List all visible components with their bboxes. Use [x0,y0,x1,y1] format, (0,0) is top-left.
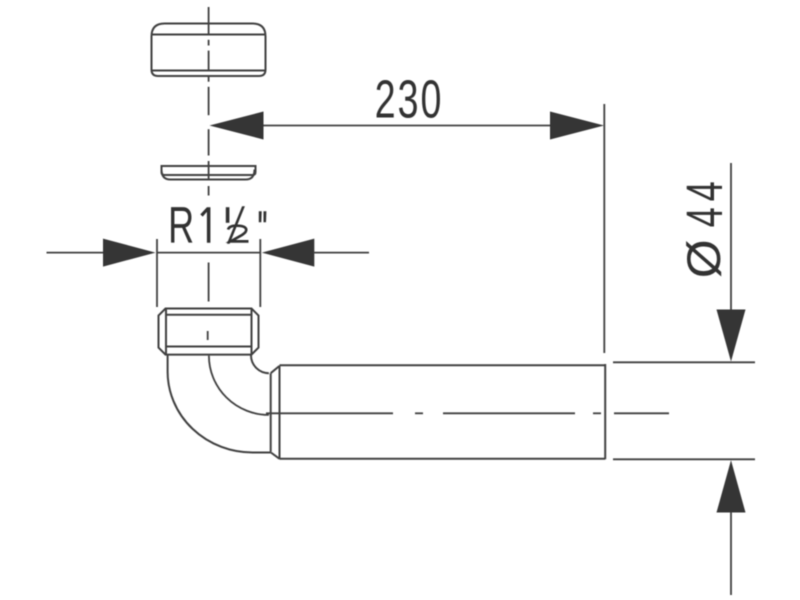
dimension R1 1/2": left line [47,252,105,254]
dimension R1 1/2": fraction denominator 2 [228,226,248,242]
dimension diameter 44: diameter symbol (rotated) [686,241,721,276]
dimension 230: line left segment with arrow tail [263,125,551,127]
dimension diameter 44: lower arrow (points up) [717,460,746,512]
dimension diameter 44: upper arrow (points down) [717,310,746,362]
cap shoulder line lower [152,70,266,72]
dimension R1 1/2": right arrow (points left) [262,239,315,267]
threaded nut of elbow: outer octagon [159,309,259,355]
dimension 230: text [377,80,394,117]
pipe end line [604,364,606,459]
elbow outer contour (left + bottom) [168,355,271,453]
dimension R1 1/2": digit 1 (custom narrow glyph) [200,207,210,243]
dimension diameter 44: digit 4 lower (rotated) [687,208,722,226]
threaded nut: inner top horizontal [166,314,252,316]
washer bevel [162,170,255,180]
horizontal centerline (dash-dot) [266,412,669,414]
dimension diameter 44: pipe top extension line [613,361,755,363]
pipe start line [279,366,281,459]
elbow inner fillet [251,355,269,374]
pipe bottom edge [280,458,606,460]
elbow outlet end line [270,373,272,452]
dimension 230: right arrow (points right, tip on extension line) [550,112,604,140]
slip nut cap (top part) [152,24,266,77]
vertical centerline (dash-dot) [207,7,210,340]
threaded nut: inner right vertical [251,309,253,355]
dimension diameter 44: lower vertical line [730,512,732,595]
dimension 230: left arrow (points left, tip on centerline) [210,112,264,140]
washer (gasket) [162,166,256,175]
threaded nut: inner left vertical [165,309,167,355]
dimension 230: right extension line [603,104,605,353]
dimension diameter 44: digit 4 upper (rotated) [687,182,722,200]
dimension R1 1/2": left extension line [156,239,158,307]
taper top line [271,366,280,373]
dimension R1 1/2": text letter R [171,207,192,242]
cap shoulder line upper [152,34,266,36]
elbow bend centerline arc (solid) [209,356,269,415]
dimension R1 1/2": left arrow (points right) [103,239,156,267]
dimension diameter 44: pipe bottom extension line [613,458,755,460]
dimension R1 1/2": inch marks [259,211,267,222]
dimension R1 1/2": fraction slash [227,206,245,244]
taper bottom line [271,453,280,459]
dimension R1 1/2": right extension line [259,239,261,307]
dimension R1 1/2": middle line between extension lines [157,252,260,254]
dimension diameter 44: upper vertical line [730,163,732,310]
dimension R1 1/2": fraction 1/2 numerator stem [226,207,230,223]
threaded nut: inner bottom horizontal [166,346,252,348]
pipe top edge [280,364,606,366]
dimension R1 1/2": right line [314,252,370,254]
